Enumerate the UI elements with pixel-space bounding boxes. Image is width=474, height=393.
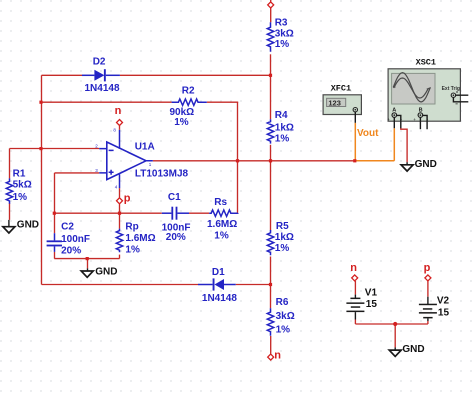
svg-text:Rs: Rs xyxy=(214,197,227,208)
wire right rail R3-R4 segment xyxy=(270,54,272,119)
svg-text:XFC1: XFC1 xyxy=(331,84,351,94)
svg-text:R2: R2 xyxy=(182,86,195,97)
junction x41 R2 row xyxy=(39,101,42,104)
junction feedback output xyxy=(236,159,239,162)
svg-text:1%: 1% xyxy=(174,117,189,128)
svg-text:15: 15 xyxy=(366,299,378,310)
wire p diamond to RC row xyxy=(119,204,121,213)
svg-text:p: p xyxy=(424,262,431,274)
svg-text:R3: R3 xyxy=(275,18,288,29)
diode D1 xyxy=(198,267,237,304)
ground under R1 xyxy=(3,219,39,233)
wire Rp bottom lead xyxy=(119,255,121,259)
wire orange XFC1 drop xyxy=(354,123,356,161)
wire battery bottom row xyxy=(355,323,428,325)
wire scope ground red xyxy=(401,128,407,162)
svg-text:+: + xyxy=(387,117,390,122)
svg-text:1%: 1% xyxy=(275,134,290,145)
op-amp U1A xyxy=(95,127,188,189)
svg-text:GND: GND xyxy=(402,344,424,355)
svg-text:Rp: Rp xyxy=(125,222,138,233)
junction battery row xyxy=(393,322,397,326)
resistor Rp xyxy=(116,222,155,256)
svg-text:1kΩ: 1kΩ xyxy=(275,122,294,133)
wire R2 row left segment xyxy=(42,101,172,103)
svg-text:V2: V2 xyxy=(437,295,450,306)
ground at scope xyxy=(401,159,437,171)
svg-text:20%: 20% xyxy=(61,245,81,256)
label Vout xyxy=(357,128,379,139)
svg-text:p: p xyxy=(124,193,131,205)
frequency counter XFC1 xyxy=(323,84,361,115)
resistor Rs xyxy=(207,197,238,242)
svg-text:Vout: Vout xyxy=(357,128,379,139)
svg-text:GND: GND xyxy=(415,159,437,170)
wire scope A pin xyxy=(393,117,395,128)
wire V1 top lead xyxy=(354,281,356,295)
capacitor C1 xyxy=(162,192,191,243)
wire non-inverting input row xyxy=(55,172,100,174)
node p diamond at V2 xyxy=(424,262,431,281)
svg-text:20%: 20% xyxy=(166,232,186,243)
junction RC row Rp xyxy=(118,212,121,215)
resistor R5 xyxy=(267,221,294,255)
svg-text:4: 4 xyxy=(115,184,118,189)
svg-text:3kΩ: 3kΩ xyxy=(275,28,294,39)
svg-text:1%: 1% xyxy=(275,39,290,50)
svg-text:3kΩ: 3kΩ xyxy=(276,311,295,322)
node n diamond at op-amp xyxy=(115,105,123,125)
junction rail D1 row xyxy=(269,283,272,286)
svg-text:1N4148: 1N4148 xyxy=(202,293,237,304)
svg-text:Ext Trig: Ext Trig xyxy=(442,86,460,92)
wire right rail below R6 xyxy=(270,336,272,354)
junction Vout orange xyxy=(353,159,356,162)
wire Vout row red segment xyxy=(271,160,355,162)
wire left rail net A vertical xyxy=(41,75,43,284)
svg-text:1%: 1% xyxy=(125,244,140,255)
wire Rp top lead xyxy=(119,213,121,228)
wire D1 row left segment xyxy=(42,284,199,286)
wire C2 bottom lead xyxy=(54,252,56,259)
svg-text:V1: V1 xyxy=(365,287,378,298)
wire op-amp pin8 red stub xyxy=(119,126,121,130)
ground at batteries xyxy=(389,344,424,356)
junction rail D2 row xyxy=(269,74,272,77)
wire V2 top lead xyxy=(427,281,429,297)
svg-text:R6: R6 xyxy=(276,297,289,308)
svg-text:3: 3 xyxy=(95,168,98,173)
node n diamond bottom of rail xyxy=(268,349,282,361)
svg-text:15: 15 xyxy=(438,308,450,319)
svg-text:+: + xyxy=(413,117,416,122)
wire battery GND stub xyxy=(394,324,396,347)
junction RC row x54 xyxy=(53,212,56,215)
resistor R2 xyxy=(170,86,207,128)
svg-text:R1: R1 xyxy=(13,168,26,179)
svg-text:XSC1: XSC1 xyxy=(416,58,436,68)
wire orange scope A drop xyxy=(393,128,395,161)
wire scope B minus pin jog xyxy=(423,115,428,129)
wire right rail top above R3 xyxy=(270,0,272,22)
wire XFC1 pin black stub xyxy=(354,112,356,123)
resistor R4 xyxy=(267,110,294,145)
svg-text:D2: D2 xyxy=(93,57,106,68)
junction rail output row xyxy=(269,159,272,162)
svg-text:R4: R4 xyxy=(275,110,288,121)
svg-text:R5: R5 xyxy=(276,221,289,232)
svg-text:1.6MΩ: 1.6MΩ xyxy=(207,219,237,230)
wire D2 row left segment xyxy=(42,74,83,76)
node p diamond at op-amp xyxy=(117,193,131,205)
svg-text:n: n xyxy=(274,349,281,361)
svg-text:1%: 1% xyxy=(275,243,290,254)
wire op-amp pin4 red stub xyxy=(119,188,121,197)
junction ground row xyxy=(86,257,89,260)
svg-text:1N4148: 1N4148 xyxy=(85,83,120,94)
oscilloscope XSC1 xyxy=(387,58,468,122)
svg-text:C1: C1 xyxy=(168,192,181,203)
wire scope B pin xyxy=(419,117,421,129)
svg-text:C2: C2 xyxy=(61,222,74,233)
svg-text:GND: GND xyxy=(95,266,117,277)
svg-text:D1: D1 xyxy=(212,267,225,278)
wire V1 bottom lead xyxy=(354,320,356,325)
wire RC row y=213.2 left xyxy=(54,212,162,214)
svg-text:GND: GND xyxy=(17,219,39,230)
svg-text:1%: 1% xyxy=(13,192,28,203)
svg-text:5kΩ: 5kΩ xyxy=(13,180,32,191)
wire GND stub below ground row xyxy=(87,259,89,269)
svg-text:U1A: U1A xyxy=(135,142,155,153)
wire RC row y=213.2 middle xyxy=(189,212,209,214)
node n diamond at V1 xyxy=(350,262,358,281)
svg-text:1%: 1% xyxy=(214,231,229,242)
svg-text:1kΩ: 1kΩ xyxy=(275,232,294,243)
diode D2 xyxy=(82,57,120,94)
svg-text:n: n xyxy=(115,105,122,117)
svg-text:123: 123 xyxy=(328,98,341,107)
svg-text:8: 8 xyxy=(113,127,116,132)
wire right rail R5-R6 segment xyxy=(270,257,272,309)
svg-text:100nF: 100nF xyxy=(61,234,90,245)
wire op-amp output row xyxy=(153,160,271,162)
battery V2 xyxy=(419,295,450,321)
svg-text:1%: 1% xyxy=(276,325,291,336)
resistor R1 xyxy=(6,168,31,204)
svg-text:1.6MΩ: 1.6MΩ xyxy=(125,233,155,244)
node diamond top of rail xyxy=(268,2,274,8)
wire ground row y=258.6 xyxy=(54,258,119,260)
battery V1 xyxy=(346,287,377,319)
wire x=54.3 vertical to C2 xyxy=(54,173,56,233)
wire R1 bottom lead xyxy=(9,204,11,220)
resistor R3 xyxy=(267,18,294,52)
wire right rail R4-R5 segment xyxy=(270,145,272,230)
svg-text:n: n xyxy=(350,262,357,274)
ground under C2 Rp row xyxy=(81,266,117,277)
wire feedback vertical x=237.8 xyxy=(237,102,239,213)
svg-text:1: 1 xyxy=(149,162,152,167)
wire inverting input row xyxy=(10,148,100,150)
wire D1 row right segment xyxy=(236,284,271,286)
resistor R6 xyxy=(267,297,294,336)
wire R2 row right segment xyxy=(207,101,238,103)
svg-text:LT1013MJ8: LT1013MJ8 xyxy=(135,169,189,180)
wire orange Vout row xyxy=(355,160,395,162)
wire R1 top lead xyxy=(9,149,11,179)
junction x41 inverting row xyxy=(39,147,42,150)
capacitor C2 xyxy=(47,222,90,257)
wire V2 bottom lead xyxy=(427,321,429,324)
wire scope A minus pin jog xyxy=(397,115,401,128)
wire D2 row right segment xyxy=(120,74,271,76)
